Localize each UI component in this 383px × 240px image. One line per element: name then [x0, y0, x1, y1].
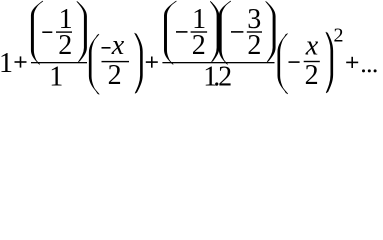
svg-text:2: 2	[58, 30, 72, 61]
svg-text:2: 2	[218, 62, 232, 93]
factor 1 close paren	[135, 33, 143, 93]
svg-text:2: 2	[108, 60, 122, 91]
fraction 1 numerator close paren	[77, 2, 87, 62]
fraction 2 group a small bar	[191, 31, 208, 32]
svg-text:1: 1	[49, 62, 63, 93]
factor 2 open paren	[278, 34, 288, 94]
fraction 2 group b minus	[231, 31, 243, 33]
fraction 2 group a open paren	[164, 1, 176, 64]
fraction 2 group a close paren	[210, 2, 219, 62]
fraction 2 bar	[162, 62, 274, 63]
svg-text:2: 2	[334, 25, 344, 47]
svg-text:2: 2	[192, 30, 206, 61]
factor 2 fraction bar	[304, 61, 320, 62]
fraction 1 bar	[31, 62, 87, 63]
factor 2 close paren	[326, 32, 333, 92]
plus 1	[15, 61, 27, 63]
factor 1 numerator minus	[102, 47, 111, 49]
ellipsis	[362, 69, 365, 72]
svg-text:2: 2	[305, 60, 319, 91]
factor 1 open paren	[89, 34, 99, 94]
plus 3	[346, 62, 358, 64]
fraction 2 group b close paren	[266, 2, 276, 62]
fraction 1 numerator minus	[42, 31, 52, 33]
svg-text:1: 1	[0, 48, 13, 79]
fraction 2 group b small bar	[247, 31, 262, 32]
fraction 2 group b open paren	[219, 1, 230, 64]
factor 2 minus	[289, 61, 300, 63]
fraction 2 group a minus	[176, 31, 188, 33]
fraction 1 numerator open paren	[31, 1, 42, 64]
fraction 1 numerator small bar	[56, 31, 72, 32]
svg-text:x: x	[111, 30, 125, 61]
svg-text:x: x	[305, 31, 319, 62]
math formula: binomial series expansion	[0, 0, 383, 96]
plus 2	[146, 61, 158, 63]
factor 1 fraction bar	[102, 61, 130, 62]
svg-text:2: 2	[247, 30, 261, 61]
